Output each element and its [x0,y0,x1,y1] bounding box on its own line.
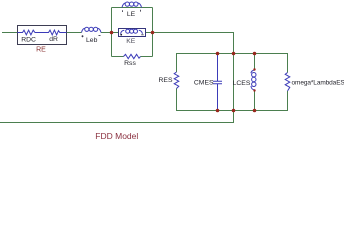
svg-text:LCES: LCES [233,80,251,87]
svg-text:FDD Model: FDD Model [95,131,138,141]
svg-text:LE: LE [127,11,136,18]
svg-text:RDC: RDC [21,36,36,43]
svg-text:RES: RES [159,77,173,84]
svg-text:KE: KE [126,38,136,45]
svg-text:CMES: CMES [194,79,214,86]
svg-text:omega*LambdaES: omega*LambdaES [292,79,344,86]
svg-text:Rss: Rss [124,60,136,67]
svg-text:dR: dR [49,36,58,43]
svg-text:RE: RE [36,46,46,53]
svg-text:Leb: Leb [86,37,98,44]
